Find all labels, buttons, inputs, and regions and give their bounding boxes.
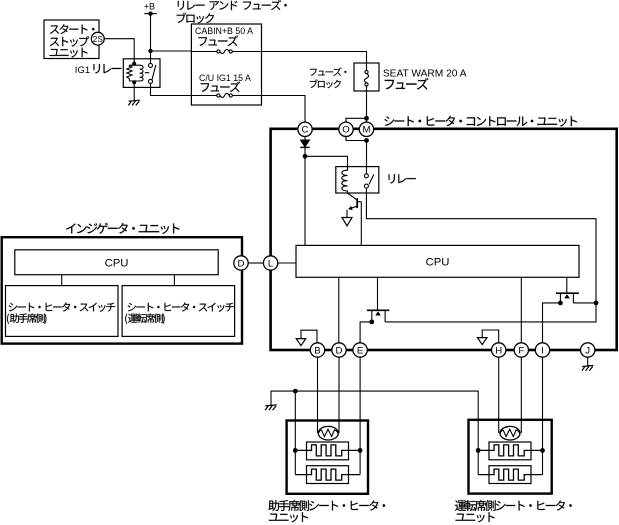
thermistor (driver) <box>500 426 520 440</box>
wire IG1 coil to ground <box>133 82 135 101</box>
fuse block label (SEAT WARM) <box>310 67 346 75</box>
svg-text:D: D <box>238 258 245 269</box>
seat heater switch (passenger) box <box>6 286 119 337</box>
start-stop unit box <box>44 20 99 59</box>
wire ground to passenger heater elements <box>294 391 296 475</box>
heating element 3 <box>489 442 531 460</box>
wire CPU to F connector <box>520 277 522 343</box>
wire right MOSFET drain <box>573 302 596 304</box>
wire F to thermistor (driver) <box>520 357 522 433</box>
passenger heater unit box <box>287 421 368 494</box>
wire CPU to driver seat switch <box>173 275 175 286</box>
IG1 relay link dash <box>145 72 149 74</box>
svg-text:M: M <box>363 125 371 136</box>
wire IG1 switch to C/U IG1 fuse <box>151 84 192 96</box>
svg-text:2S: 2S <box>93 35 104 44</box>
ground (heater units) <box>265 405 276 410</box>
+B terminal <box>144 13 157 15</box>
driver heater unit box <box>469 420 552 494</box>
connector F <box>514 343 528 357</box>
driver heater unit label <box>455 500 572 511</box>
heater ground wire <box>271 391 478 475</box>
relay coil <box>342 169 348 194</box>
relay switch (control unit) <box>364 174 368 178</box>
wire H to thermistor (driver) <box>498 357 500 433</box>
connector L <box>278 262 296 264</box>
wire I to heating elements (driver) <box>542 357 544 474</box>
indicator unit label <box>66 223 179 234</box>
svg-text:B: B <box>314 345 320 356</box>
relay and fuse block box <box>191 24 261 105</box>
relay box (control unit) <box>336 167 379 193</box>
start-stop unit label <box>50 24 95 34</box>
heating element 2 <box>307 466 349 484</box>
wire CABIN fuse output to SEAT WARM fuse <box>262 52 367 71</box>
wire M to internal relay switch <box>366 141 368 175</box>
connector I <box>535 343 549 357</box>
wire O parallel loop <box>346 118 367 140</box>
CPU box (indicator) <box>15 250 218 275</box>
IG1 relay coil and resistor (parallel) <box>127 65 140 81</box>
connector 2S <box>91 32 104 45</box>
svg-text:O: O <box>342 125 349 136</box>
node relay output / right MOSFET drain <box>594 301 599 306</box>
svg-text:F: F <box>518 345 524 356</box>
wire relay switch output to MOSFETs <box>366 188 596 322</box>
svg-text:D: D <box>336 345 343 356</box>
svg-text:CPU: CPU <box>105 258 129 270</box>
node above M <box>364 116 369 121</box>
connector M <box>359 122 373 136</box>
wire diode node to relay coil <box>305 156 348 170</box>
wire 2S to IG1 relay coil <box>104 39 134 64</box>
wire transistor base to CPU <box>360 202 362 246</box>
fuse block box (SEAT WARM) <box>354 63 379 91</box>
node element1 right <box>358 448 363 453</box>
wire C/U IG1 fuse output to connector C <box>262 96 306 123</box>
CPU box (control unit) <box>296 245 579 277</box>
relay and fuse block label <box>178 0 287 10</box>
seat heater control unit label <box>384 116 577 127</box>
node +B / fuse branch <box>148 49 152 53</box>
svg-text:CPU: CPU <box>426 257 450 269</box>
svg-text:CABIN+B 50 A: CABIN+B 50 A <box>195 26 253 36</box>
connector J <box>581 343 595 357</box>
heating element 4 <box>489 466 531 484</box>
wire right MOSFET source to I <box>543 303 561 343</box>
wire left MOSFET source to E <box>360 322 372 343</box>
node below M <box>364 138 369 143</box>
svg-text:L: L <box>268 258 274 269</box>
IG1 relay box <box>123 59 160 88</box>
node ground branch <box>293 389 298 394</box>
connector E <box>353 343 367 357</box>
wire D to thermistor <box>338 357 340 433</box>
wire D to L <box>248 262 263 264</box>
node element3 right <box>540 448 545 453</box>
node element1 left <box>293 448 298 453</box>
seat heater control unit box <box>271 129 617 350</box>
indicator unit box <box>2 237 242 343</box>
wire diode node to CPU <box>304 156 306 245</box>
wire +B down to IG1 relay switch <box>150 14 152 64</box>
relay label <box>389 174 416 183</box>
wire CPU to passenger seat switch <box>61 275 63 286</box>
IG1 relay switch <box>149 63 153 67</box>
svg-text:I: I <box>541 345 544 356</box>
connector B <box>310 343 324 357</box>
connector O <box>339 122 353 136</box>
svg-text:H: H <box>495 345 502 356</box>
connector D (control unit) <box>332 343 346 357</box>
ground (connector J) <box>582 366 593 371</box>
svg-text:SEAT WARM 20 A: SEAT WARM 20 A <box>383 68 467 79</box>
svg-text:C: C <box>302 125 309 136</box>
connector H <box>492 343 506 357</box>
ground (IG1 relay) <box>128 100 139 105</box>
wire SEAT WARM fuse to connector M <box>366 86 368 129</box>
svg-text:+B: +B <box>144 1 155 11</box>
wire +B junction to CABIN fuse <box>151 50 192 52</box>
thermistor (passenger) <box>318 426 338 440</box>
wire E to heating elements <box>359 357 361 474</box>
floating input marker at H <box>482 330 499 343</box>
fuse SEAT WARM 20A <box>365 70 368 73</box>
right MOSFET Q3 <box>566 277 568 293</box>
node below diode <box>303 154 308 159</box>
passenger heater unit label <box>268 500 385 511</box>
seat heater switch (driver) box <box>122 286 235 337</box>
left MOSFET Q2 <box>377 277 379 310</box>
svg-text:IG1: IG1 <box>75 65 90 76</box>
connector D (indicator) <box>234 256 248 270</box>
connector C <box>298 122 312 136</box>
wire J to ground <box>587 357 589 366</box>
svg-text:E: E <box>357 345 363 356</box>
node element3 left <box>476 448 481 453</box>
floating input marker at B <box>301 330 317 343</box>
svg-text:C/U IG1 15 A: C/U IG1 15 A <box>199 73 251 83</box>
diode D1 <box>304 137 306 141</box>
heating element 1 <box>307 442 349 460</box>
transistor Q1 <box>348 193 357 200</box>
wire CPU to D connector <box>338 277 340 343</box>
svg-text:J: J <box>585 345 590 356</box>
wire B to thermistor <box>317 357 319 433</box>
